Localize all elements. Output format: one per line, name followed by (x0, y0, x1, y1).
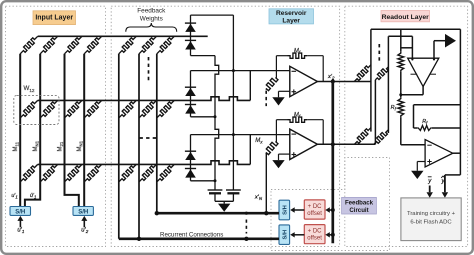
svg-text:Circuit: Circuit (349, 207, 368, 214)
svg-text:Readout Layer: Readout Layer (382, 14, 430, 21)
svg-text:Reservoir: Reservoir (276, 10, 307, 17)
svg-text:u′1: u′1 (17, 228, 24, 235)
svg-text:MN1: MN1 (33, 140, 40, 151)
svg-text:Recurrent Connections: Recurrent Connections (160, 231, 223, 238)
svg-text:S/H: S/H (78, 209, 88, 215)
svg-text:+ DC: + DC (308, 229, 323, 235)
svg-text:Mf: Mf (294, 49, 301, 56)
svg-text:Layer: Layer (282, 17, 300, 24)
svg-text:M11: M11 (13, 141, 20, 151)
svg-text:S/H: S/H (282, 205, 288, 215)
svg-text:x′2: x′2 (327, 74, 335, 81)
svg-text:offset: offset (307, 211, 322, 217)
svg-text:Mf: Mf (294, 113, 301, 120)
svg-text:Feedback: Feedback (137, 8, 166, 15)
svg-text:M21: M21 (58, 141, 65, 151)
svg-text:Mx: Mx (255, 138, 263, 145)
svg-text:S/H: S/H (282, 230, 288, 240)
svg-text:6-bit Flash ADC: 6-bit Flash ADC (410, 220, 452, 226)
svg-text:S/H: S/H (15, 209, 25, 215)
svg-text:u′1: u′1 (11, 193, 17, 199)
svg-text:u′2: u′2 (81, 228, 88, 235)
svg-text:Input Layer: Input Layer (35, 15, 73, 22)
svg-text:+ DC: + DC (308, 204, 323, 210)
svg-text:Weights: Weights (140, 15, 163, 22)
svg-text:ū′1: ū′1 (30, 193, 36, 199)
svg-text:Rf: Rf (391, 105, 397, 111)
svg-text:Training circuitry +: Training circuitry + (407, 211, 456, 217)
svg-text:MN1: MN1 (77, 140, 84, 151)
svg-text:x′N: x′N (254, 195, 263, 202)
svg-text:Feedback: Feedback (345, 199, 374, 206)
svg-text:offset: offset (307, 236, 322, 242)
svg-text:Rf: Rf (422, 119, 428, 125)
